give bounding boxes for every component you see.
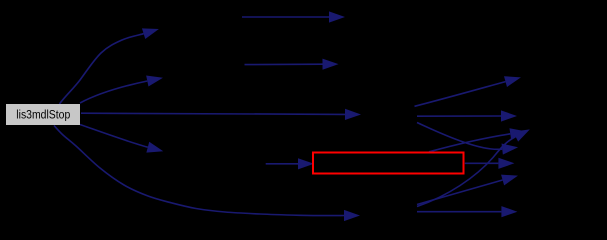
svg-text:lis3mdlStop: lis3mdlStop — [16, 107, 70, 121]
